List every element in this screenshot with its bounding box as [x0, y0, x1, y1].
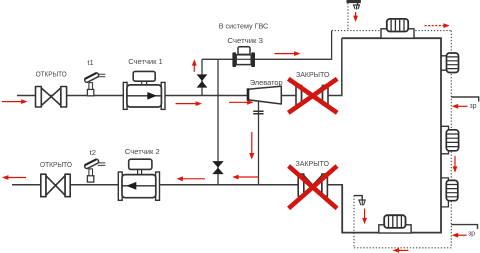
arrow: dashed right along dotted top [425, 25, 445, 27]
wire: dotted drop from top tap x=348 [347, 0, 349, 31]
valve B2: bypass valve (black) [212, 161, 223, 174]
arrow: before elevator right [229, 101, 248, 103]
svg-text:В систему ГВС: В систему ГВС [219, 22, 269, 31]
wire: dotted ГВС bottom y=247.8 [354, 247, 451, 249]
arrow: supply inlet right [2, 101, 22, 103]
wire: heating loop rectangle (building circuit) [342, 38, 441, 232]
meter Счетчик 3 [232, 47, 255, 67]
valve V4 ЗАКРЫТО return [298, 174, 327, 196]
wire: ГВС line y=59.3 [202, 58, 332, 60]
tap (кран) top cut off at image edge [347, 0, 360, 10]
svg-text:t2: t2 [90, 148, 96, 157]
arrow: down from top tap [355, 12, 357, 17]
wire: pipe through meter 1 with flow arrow [127, 95, 161, 97]
arrow: left into riser from upper tap [458, 105, 468, 107]
valve B1: branch valve to ГВС (black) [197, 74, 208, 87]
svg-text:ОТКРЫТО: ОТКРЫТО [36, 69, 67, 78]
svg-text:ЗАКРЫТО: ЗАКРЫТО [295, 159, 329, 168]
arrow: left into riser from lower tap [458, 234, 467, 236]
wire: tap line right lower y=224.6 [451, 225, 477, 229]
svg-text:зр: зр [468, 231, 475, 238]
arrow: up into ГВС branch [193, 65, 195, 72]
valve V2 ОТКРЫТО return [41, 174, 70, 197]
arrow: left along dotted bottom [399, 249, 409, 251]
radiator R3 right riser [441, 178, 458, 207]
svg-text:ОТКРЫТО: ОТКРЫТО [40, 160, 72, 169]
valve V1 ОТКРЫТО supply [36, 87, 67, 108]
arrow: ГВС line right [275, 53, 295, 55]
meter Счетчик 1 [123, 71, 165, 109]
meter Счетчик 2 [118, 159, 159, 200]
red X over return ЗАКРЫТО valve [289, 166, 337, 208]
thermometer t1 [84, 72, 105, 96]
radiator R1 right riser [441, 53, 459, 73]
radiator R2 right riser [441, 126, 459, 154]
svg-text:Счетчик 3: Счетчик 3 [227, 36, 263, 45]
tap (кран) bottom middle [354, 196, 366, 206]
svg-text:Элеватор: Элеватор [250, 78, 283, 87]
elevator У1 [248, 86, 281, 114]
wire: return pipe bottom (y=184.8) [12, 184, 343, 186]
arrow: return outlet left [8, 177, 26, 179]
thermometer t2 [84, 159, 105, 183]
wire: dotted ГВС internal top y=30.6 [332, 30, 452, 32]
arrow: after meter 1 right [176, 103, 197, 105]
arrow: return after elevator drop left [238, 176, 258, 178]
svg-text:t1: t1 [87, 58, 93, 67]
valve V3 ЗАКРЫТО supply [296, 85, 328, 104]
wire: pipe through meter 2 with flow arrow [122, 185, 156, 187]
wire: bypass x=218 from ГВС line to return [217, 59, 219, 185]
wire: tap line right upper y=97 [451, 97, 478, 102]
radiator R-bottom on loop bottom edge [379, 215, 411, 233]
arrow: return before meter 2 left [182, 178, 205, 180]
svg-text:зр: зр [469, 103, 476, 110]
wire: ГВС rise x=331.6 [331, 31, 333, 60]
svg-text:Счетчик 1: Счетчик 1 [128, 57, 163, 66]
wire: dotted ГВС riser x=451.3 [450, 31, 452, 248]
wire: elevator drop x=258.5 [258, 101, 260, 185]
arrow: down right riser between radiators [454, 156, 456, 167]
wire: dotted riser to bottom tap x=354 [353, 196, 355, 248]
radiator R-top on loop top edge [381, 19, 414, 38]
red X over supply ЗАКРЫТО valve [288, 79, 337, 113]
arrow: down along elevator drop pipe [251, 132, 253, 154]
svg-text:ЗАКРЫТО: ЗАКРЫТО [296, 70, 330, 79]
wire: ГВС branch riser x=202 [201, 59, 203, 95]
arrow: down from bottom tap [364, 209, 366, 219]
wire: supply pipe top (y=95.5) rising into loop [17, 38, 342, 95]
svg-text:Счетчик 2: Счетчик 2 [125, 147, 160, 156]
